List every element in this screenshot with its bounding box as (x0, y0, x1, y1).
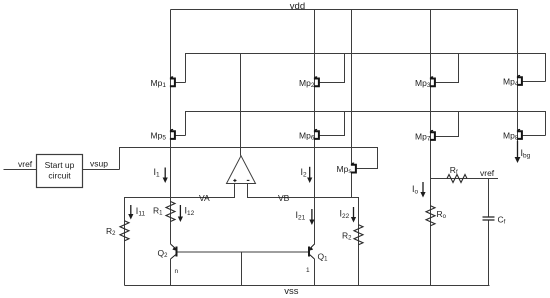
capacitor Cf (483, 217, 495, 220)
node VB label (278, 193, 290, 203)
node vsup label (90, 159, 108, 169)
transistor Mp8 (517, 130, 522, 139)
svg-text:R1: R1 (153, 206, 163, 217)
svg-text:Mp6: Mp6 (299, 131, 315, 142)
transistor Mp3 (430, 77, 435, 86)
svg-text:Q2: Q2 (158, 248, 169, 259)
wire Cf bottom to vss (488, 220, 490, 286)
current I11 arrow (130, 205, 132, 215)
svg-text:vdd: vdd (290, 1, 305, 12)
current I2 arrow (309, 167, 311, 179)
wire Mps drain to VB (351, 173, 353, 198)
svg-text:Rf: Rf (450, 165, 458, 176)
wire third branch vertical through Mp3 Mp7 to Ro (430, 10, 432, 286)
wire op-amp output to upper gate bus (240, 54, 242, 156)
wire vss rail (125, 285, 490, 287)
svg-text:VA: VA (199, 193, 210, 203)
resistor R2 left (120, 221, 129, 241)
svg-text:Cf: Cf (498, 215, 506, 226)
svg-text:Ro: Ro (437, 209, 447, 220)
wire right branch vertical through Mp4 Mp8 (517, 10, 519, 144)
wire Rf output to vref (431, 178, 499, 180)
svg-text:R2: R2 (106, 226, 116, 237)
svg-text:vsup: vsup (90, 159, 108, 169)
wire node VB to R2 right branch (248, 184, 359, 286)
resistor Rf (447, 175, 467, 183)
wire vsup from startup box (83, 169, 120, 171)
transistor Mp1 (170, 77, 175, 86)
svg-text:Start up: Start up (45, 160, 75, 170)
svg-text:Mp7: Mp7 (415, 132, 431, 143)
transistor Mp2 (314, 77, 319, 86)
current Ibg arrow (517, 141, 519, 158)
svg-text:I12: I12 (185, 206, 195, 218)
svg-text:I22: I22 (340, 209, 350, 221)
start-up circuit block (37, 155, 83, 188)
node vss label (284, 286, 299, 297)
svg-text:R2: R2 (342, 231, 352, 242)
wire vsup rail to Mps gate (120, 148, 378, 170)
transistor Mp6 (314, 130, 319, 139)
wire second branch vertical through Mp2 Mp6 to Q1 emitter (314, 10, 316, 245)
svg-text:I21: I21 (296, 210, 306, 222)
wire base line to vss tap (241, 252, 243, 286)
svg-text:Ibg: Ibg (521, 148, 531, 160)
svg-text:circuit: circuit (48, 171, 71, 181)
wire Mp4 gate stub (523, 81, 546, 83)
svg-text:I11: I11 (136, 206, 146, 218)
wire Mp3 gate riser (435, 54, 459, 83)
Q1 area ratio label 1 (306, 267, 310, 274)
svg-text:Q1: Q1 (318, 251, 329, 262)
wire node VA to R2 left branch (125, 184, 235, 286)
svg-text:vref: vref (480, 168, 495, 178)
current I21 arrow (311, 209, 313, 221)
node VA label (199, 193, 210, 203)
svg-text:Mp8: Mp8 (503, 131, 519, 142)
wire lower gate bus (186, 112, 546, 136)
wire Mp7 gate riser (435, 112, 459, 137)
svg-text:Mp1: Mp1 (151, 78, 167, 89)
resistor R2 right (354, 225, 363, 245)
current I1 arrow (164, 168, 166, 179)
wire Mp8 gate stub (523, 135, 546, 137)
wire Mp6 gate riser (320, 112, 345, 136)
node vdd label (290, 1, 305, 12)
wire left branch vertical through Mp1 Mp5 to node VA (170, 10, 172, 198)
wire Cf top branch (488, 179, 490, 218)
wire R1 branch VA to Q2 emitter (170, 198, 172, 245)
node vref input label (18, 159, 33, 169)
svg-text:Mp3: Mp3 (415, 78, 431, 89)
svg-text:n: n (175, 268, 179, 275)
wire Mp1 gate stub (176, 82, 186, 84)
svg-text:Mp5: Mp5 (151, 131, 167, 142)
wire Q1 collector to vss (314, 259, 316, 286)
svg-text:I1: I1 (154, 167, 161, 179)
wire Mp2 gate riser (320, 54, 345, 83)
svg-text:1: 1 (306, 267, 310, 274)
svg-text:I2: I2 (301, 167, 308, 179)
transistor Mps (351, 163, 356, 172)
svg-text:Mp4: Mp4 (503, 77, 519, 88)
svg-text:VB: VB (278, 193, 290, 203)
transistor Mp4 (517, 76, 522, 85)
transistor Mp7 (430, 131, 435, 140)
svg-text:Mp2: Mp2 (299, 78, 315, 89)
svg-text:Io: Io (412, 184, 419, 196)
wire vref input (4, 169, 37, 171)
op-amp input polarity marks (233, 179, 249, 182)
svg-text:Mps: Mps (337, 164, 353, 175)
wire Mps source feed vertical (351, 10, 353, 165)
current Io arrow (422, 182, 424, 193)
transistor Q1 (309, 244, 315, 259)
resistor R1 (166, 202, 175, 222)
wire Q2 collector to vss (170, 259, 172, 286)
op-amp U1 (227, 156, 256, 184)
svg-text:vss: vss (284, 286, 299, 297)
wire Mp5 gate stub (176, 135, 186, 137)
current I12 arrow (179, 205, 181, 218)
wire Q1 Q2 common base line (177, 251, 310, 253)
current I22 arrow (353, 207, 355, 218)
wire vdd rail (171, 9, 519, 11)
transistor Mp5 (170, 130, 175, 139)
Q2 area ratio label n (175, 268, 179, 275)
svg-text:vref: vref (18, 159, 33, 169)
wire upper gate bus (186, 54, 546, 83)
transistor Q2 (171, 244, 177, 259)
resistor Ro (426, 206, 435, 226)
node vref output label (480, 168, 495, 178)
